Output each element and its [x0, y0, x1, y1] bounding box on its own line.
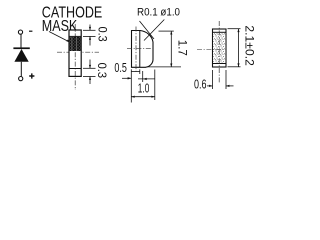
dim 2.1+-0.2: extension lines [228, 28, 241, 30]
horizontal centerline [57, 51, 99, 53]
diode triangle (anode) [14, 49, 28, 62]
dim 0.3 bottom arrows [89, 60, 91, 69]
svg-text:R0.1 ø1.0: R0.1 ø1.0 [137, 7, 180, 19]
stipple fill middle section [213, 33, 225, 63]
dim 0.3 bottom: extension lines [83, 67, 96, 69]
dim 0.3 top: extension lines [83, 29, 96, 31]
leader to corner radius [140, 21, 155, 39]
svg-text:0.6: 0.6 [194, 77, 207, 91]
svg-text:0.5: 0.5 [114, 61, 127, 75]
svg-text:0.3: 0.3 [95, 27, 109, 42]
cathode terminal (top circle) [18, 30, 22, 34]
vertical centerline [135, 27, 137, 72]
horizontal centerline [127, 48, 154, 50]
anode terminal (bottom circle) [19, 77, 23, 81]
dim 0.6 arrows [207, 85, 213, 87]
svg-text:2.1±0.2: 2.1±0.2 [242, 25, 256, 66]
plus polarity mark [29, 73, 34, 78]
minus polarity mark [29, 31, 32, 32]
svg-text:1.0: 1.0 [138, 81, 150, 95]
body outline [69, 30, 81, 76]
diode cathode bar [13, 47, 29, 49]
dim 0.5 left arrow [122, 77, 131, 79]
svg-text:1.7: 1.7 [175, 40, 189, 56]
body outline [213, 29, 227, 67]
dim 1.7 line with arrows [170, 31, 172, 67]
dim 2.1 line with arrows [238, 29, 240, 67]
vertical centerline [218, 21, 220, 83]
body profile [132, 31, 154, 68]
package back face line [139, 31, 141, 68]
dim 1.0 line with arrows [131, 96, 155, 98]
wire cathode lead [20, 34, 22, 47]
svg-text:0.3: 0.3 [95, 63, 109, 79]
dim 1.0: extension line right [154, 70, 156, 101]
horizontal centerline [197, 48, 226, 50]
dim 0.3 top arrows [89, 25, 91, 31]
dim 0.6: extension lines [212, 70, 214, 89]
lens reference: extension and arrow [142, 71, 144, 82]
dim 1.7: extension lines [159, 30, 174, 32]
wire anode lead [20, 62, 22, 77]
leader to lens dia [144, 20, 164, 41]
cathode mask band [70, 37, 81, 51]
bottom electrode line [213, 63, 227, 65]
leader from MASK to mask band [49, 32, 70, 43]
top electrode line [69, 35, 81, 37]
dim 0.5: extension lines [130, 69, 132, 102]
bottom electrode line [69, 68, 81, 70]
top electrode line [213, 31, 227, 33]
dim 0.5 line [131, 71, 140, 73]
vertical centerline [74, 24, 76, 90]
